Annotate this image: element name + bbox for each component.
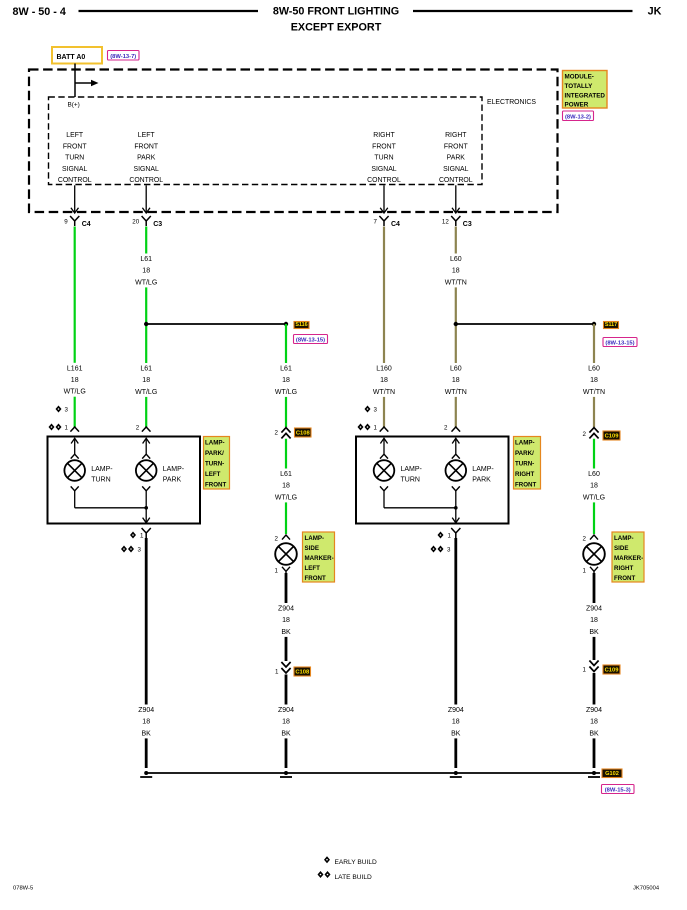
svg-text:RIGHT: RIGHT: [515, 471, 534, 478]
svg-text:18: 18: [452, 719, 460, 726]
svg-text:CONTROL: CONTROL: [367, 177, 401, 184]
label LAMP-PARK/TURN-LEFT FRONT: [204, 437, 230, 490]
svg-text:C108: C108: [296, 430, 311, 436]
svg-text:L60: L60: [450, 366, 462, 373]
svg-text:C109: C109: [605, 433, 620, 439]
ground wire Z904 left lamp: [145, 538, 148, 768]
svg-text:CONTROL: CONTROL: [439, 177, 473, 184]
lamp side marker left front pin 1: [282, 567, 290, 574]
wire L61 18 WT/LG to left side marker: [285, 439, 287, 534]
svg-text:2: 2: [444, 425, 448, 432]
svg-text:18: 18: [282, 483, 290, 490]
svg-text:INTEGRATED: INTEGRATED: [565, 93, 606, 100]
svg-text:PARK: PARK: [163, 477, 182, 484]
wire label Z904 18 BK: [441, 705, 471, 739]
svg-text:LEFT: LEFT: [66, 132, 84, 139]
ground exit arrow left: [143, 518, 150, 523]
arrow from TURN control to connector: [74, 185, 76, 213]
svg-text:L160: L160: [376, 366, 392, 373]
wire label Z904 18 BK left side marker: [271, 603, 301, 637]
wire label L161 18 WT/LG: [60, 363, 90, 397]
lamp box entry connector: [380, 427, 389, 432]
wire L60 18 WT/TN (right front park): [455, 227, 457, 428]
svg-text:TOTALLY: TOTALLY: [565, 83, 594, 90]
wire label L61 18 WT/LG upper: [131, 254, 161, 288]
lamp box entry connector: [70, 427, 79, 432]
ground label G102: [602, 769, 622, 778]
svg-text:CONTROL: CONTROL: [129, 177, 163, 184]
splice S117 junction at L60: [454, 322, 458, 326]
wire label L160 18 WT/TN: [369, 363, 399, 397]
svg-text:078W-5: 078W-5: [13, 886, 33, 892]
svg-text:TURN-: TURN-: [205, 461, 224, 468]
svg-text:18: 18: [452, 268, 460, 275]
svg-text:EARLY BUILD: EARLY BUILD: [335, 859, 378, 866]
svg-text:1: 1: [275, 568, 279, 575]
svg-text:18: 18: [282, 617, 290, 624]
ground junction: [454, 771, 458, 775]
svg-text:FRONT: FRONT: [205, 482, 227, 489]
lamp-park right: [455, 438, 457, 455]
svg-text:9: 9: [64, 219, 68, 226]
svg-text:RIGHT: RIGHT: [373, 132, 395, 139]
svg-text:MARKER-: MARKER-: [305, 555, 334, 562]
reference label 8W-13-2: [563, 111, 594, 121]
svg-text:FRONT: FRONT: [444, 143, 469, 150]
ground wire Z904 from right side marker: [593, 573, 596, 660]
svg-text:2: 2: [136, 425, 140, 432]
wire label L61 18 WT/LG lower: [271, 469, 301, 503]
svg-text:C3: C3: [463, 221, 472, 228]
svg-text:WT/TN: WT/TN: [445, 279, 467, 286]
svg-text:18: 18: [590, 483, 598, 490]
svg-text:JK: JK: [648, 6, 662, 18]
svg-text:(8W-13-15): (8W-13-15): [296, 337, 325, 343]
svg-text:CONTROL: CONTROL: [58, 177, 92, 184]
svg-text:S116: S116: [295, 322, 307, 328]
lamp-turn right: [383, 438, 385, 455]
lamp park/turn right front box: [356, 437, 509, 524]
svg-text:LAMP-: LAMP-: [401, 466, 423, 473]
svg-text:FRONT: FRONT: [515, 482, 537, 489]
svg-text:18: 18: [590, 617, 598, 624]
wire label Z904 18 BK: [271, 705, 301, 739]
lamp side marker right front pin 2: [590, 535, 598, 540]
lamp park/turn left front box: [48, 437, 201, 524]
wire L160 18 WT/TN (right front turn): [383, 227, 385, 428]
ground wire Z904 left branch lower: [285, 675, 288, 769]
arrow from PARK control to connector: [145, 185, 147, 213]
svg-text:1: 1: [275, 669, 279, 676]
svg-text:PARK: PARK: [447, 155, 466, 162]
svg-text:8W - 50 - 4: 8W - 50 - 4: [13, 6, 66, 18]
lamp side marker right front pin 1: [590, 567, 598, 574]
splice label S117: [604, 322, 619, 329]
ground wire Z904 right lamp: [454, 538, 457, 768]
late build marker pin 1 left: [49, 424, 55, 431]
svg-text:LAMP-: LAMP-: [614, 535, 634, 542]
svg-text:Z904: Z904: [448, 707, 464, 714]
lamp-park left: [145, 438, 147, 455]
lamp wiring junction left: [74, 491, 76, 508]
svg-text:18: 18: [71, 377, 79, 384]
connector C3 pin 20: [142, 216, 151, 226]
svg-text:FRONT: FRONT: [305, 575, 327, 582]
svg-text:WT/TN: WT/TN: [445, 389, 467, 396]
early build marker pin 3 right: [365, 406, 371, 413]
reference label 8W-13-15 left: [294, 335, 328, 344]
svg-text:Z904: Z904: [278, 707, 294, 714]
svg-text:LEFT: LEFT: [305, 565, 321, 572]
svg-text:MARKER-: MARKER-: [614, 555, 643, 562]
svg-text:BK: BK: [589, 629, 599, 636]
early build pin 1 marker right exit: [438, 532, 444, 539]
splice S116 junction right: [284, 322, 288, 326]
svg-text:PARK: PARK: [472, 477, 491, 484]
legend late build: [318, 871, 324, 878]
svg-text:WT/TN: WT/TN: [583, 389, 605, 396]
svg-text:7: 7: [374, 219, 378, 226]
svg-text:18: 18: [590, 377, 598, 384]
svg-text:MODULE-: MODULE-: [565, 74, 594, 81]
ground junction: [144, 771, 148, 775]
svg-text:2: 2: [583, 536, 587, 543]
svg-text:BK: BK: [281, 629, 291, 636]
wire label L61 18 WT/LG mid: [131, 363, 161, 397]
splice S116 bus wire: [146, 323, 286, 325]
label LAMP-SIDE MARKER-RIGHT FRONT: [612, 532, 644, 582]
wire label L61 18 WT/LG branch: [271, 363, 301, 397]
wire L61 18 WT/LG (left front park): [145, 227, 147, 428]
svg-text:EXCEPT EXPORT: EXCEPT EXPORT: [291, 22, 382, 34]
ground junction: [592, 771, 596, 775]
svg-text:LATE BUILD: LATE BUILD: [335, 874, 372, 881]
svg-text:1: 1: [374, 425, 378, 432]
early build marker pin 3 left: [56, 406, 62, 413]
lamp wiring junction right: [383, 491, 385, 508]
svg-text:BATT A0: BATT A0: [57, 54, 86, 61]
svg-text:SIGNAL: SIGNAL: [62, 166, 87, 173]
svg-text:B(+): B(+): [68, 102, 80, 109]
lamp side marker right front: [583, 543, 605, 565]
svg-text:SIGNAL: SIGNAL: [371, 166, 396, 173]
svg-text:18: 18: [452, 377, 460, 384]
svg-text:2: 2: [275, 536, 279, 543]
svg-text:1: 1: [65, 425, 69, 432]
lamp box entry connector: [452, 427, 461, 432]
header rule right: [413, 10, 633, 12]
svg-text:BK: BK: [142, 730, 152, 737]
svg-text:SIDE: SIDE: [614, 545, 628, 552]
svg-text:POWER: POWER: [565, 102, 589, 109]
svg-text:L61: L61: [280, 471, 292, 478]
svg-text:1: 1: [448, 533, 452, 540]
connector C4 pin 7: [379, 216, 388, 226]
svg-text:C4: C4: [82, 221, 91, 228]
svg-text:18: 18: [142, 268, 150, 275]
svg-text:C4: C4: [391, 221, 400, 228]
battery feed box BATT A0: [52, 47, 102, 64]
svg-text:L161: L161: [67, 365, 83, 372]
splice S116 junction at L61: [144, 322, 148, 326]
svg-text:FRONT: FRONT: [63, 143, 88, 150]
legend early build: [324, 856, 330, 863]
svg-text:SIGNAL: SIGNAL: [443, 166, 468, 173]
svg-text:TURN: TURN: [65, 155, 84, 162]
lamp box right ground pin connector: [451, 528, 460, 538]
svg-text:LAMP-: LAMP-: [472, 466, 494, 473]
header rule left: [79, 10, 259, 12]
label LAMP-PARK/TURN-RIGHT FRONT: [514, 437, 541, 490]
svg-text:BK: BK: [281, 730, 291, 737]
svg-text:LEFT: LEFT: [138, 132, 156, 139]
in-line connector C108 pin 2: [281, 428, 290, 433]
in-line connector C109 pin 2: [589, 428, 598, 433]
wire label Z904 18 BK: [131, 705, 161, 739]
lamp box left ground pin connector: [142, 528, 151, 538]
svg-text:TURN: TURN: [374, 155, 393, 162]
svg-text:18: 18: [380, 377, 388, 384]
ground exit arrow right: [452, 518, 459, 523]
svg-text:18: 18: [282, 719, 290, 726]
svg-text:PARK/: PARK/: [515, 450, 534, 457]
svg-text:PARK: PARK: [137, 155, 156, 162]
svg-text:S117: S117: [605, 322, 617, 328]
svg-text:20: 20: [132, 219, 139, 226]
svg-text:L60: L60: [450, 256, 462, 263]
svg-text:18: 18: [282, 377, 290, 384]
svg-text:L60: L60: [588, 471, 600, 478]
svg-text:3: 3: [374, 407, 378, 414]
wire label L60 18 WT/LG lower: [579, 469, 609, 503]
svg-text:L61: L61: [140, 256, 152, 263]
svg-text:1: 1: [583, 568, 587, 575]
connector C3 pin 12: [451, 216, 460, 226]
module-totally integrated power outer dashed box: [29, 70, 558, 213]
ground wire Z904 from left side marker: [285, 573, 288, 661]
svg-text:(8W-13-15): (8W-13-15): [605, 340, 634, 346]
arrow from PARK control to connector: [455, 185, 457, 213]
svg-text:SIDE: SIDE: [305, 545, 319, 552]
label LAMP-SIDE MARKER-LEFT FRONT: [303, 532, 335, 582]
svg-text:8W-50 FRONT LIGHTING: 8W-50 FRONT LIGHTING: [273, 6, 399, 18]
late build marker pin 1 right: [358, 424, 364, 431]
wire from BATT A0 to B(+): [74, 64, 76, 98]
svg-text:WT/LG: WT/LG: [275, 494, 297, 501]
svg-text:LAMP-: LAMP-: [205, 440, 225, 447]
svg-text:TURN: TURN: [91, 477, 110, 484]
svg-text:PARK/: PARK/: [205, 450, 224, 457]
svg-text:L60: L60: [588, 366, 600, 373]
reference label 8W-13-15 right: [603, 338, 637, 347]
branch arrow to other circuits: [75, 82, 92, 84]
connector C4 pin 9: [70, 216, 79, 226]
svg-text:Z904: Z904: [586, 606, 602, 613]
lamp box entry connector: [142, 427, 151, 432]
svg-text:Z904: Z904: [586, 707, 602, 714]
wire label L60 18 WT/TN upper: [441, 254, 471, 288]
svg-text:RIGHT: RIGHT: [445, 132, 467, 139]
svg-text:Z904: Z904: [278, 606, 294, 613]
svg-text:C108: C108: [295, 669, 310, 675]
svg-text:FRONT: FRONT: [614, 575, 636, 582]
svg-text:C3: C3: [153, 221, 162, 228]
svg-text:LAMP-: LAMP-: [163, 466, 185, 473]
svg-text:LAMP-: LAMP-: [305, 535, 325, 542]
svg-text:18: 18: [142, 719, 150, 726]
svg-text:ELECTRONICS: ELECTRONICS: [487, 99, 536, 106]
svg-text:FRONT: FRONT: [372, 143, 397, 150]
svg-text:WT/LG: WT/LG: [135, 279, 157, 286]
svg-text:3: 3: [65, 407, 69, 414]
svg-text:(8W-13-7): (8W-13-7): [110, 54, 136, 60]
ground bus wire to G102: [146, 772, 600, 774]
module label MODULE-TOTALLY INTEGRATED POWER: [563, 71, 608, 109]
svg-text:1: 1: [140, 533, 144, 540]
ground wire Z904 right branch lower: [593, 673, 596, 768]
svg-text:WT/LG: WT/LG: [135, 389, 157, 396]
svg-text:WT/LG: WT/LG: [583, 494, 605, 501]
svg-text:3: 3: [138, 547, 142, 554]
early build pin 1 marker left exit: [130, 532, 136, 539]
svg-text:TURN-: TURN-: [515, 461, 534, 468]
wire L60 18 WT/TN branch from S117 to C109: [593, 324, 595, 427]
reference label 8W-15-3: [602, 785, 635, 794]
svg-text:RIGHT: RIGHT: [614, 565, 633, 572]
svg-text:(8W-13-2): (8W-13-2): [565, 114, 591, 120]
wire label Z904 18 BK right side marker: [579, 603, 609, 637]
late build pin 3 marker left exit: [121, 546, 127, 553]
svg-text:L61: L61: [140, 366, 152, 373]
svg-text:WT/LG: WT/LG: [64, 389, 86, 396]
arrow from TURN control to connector: [383, 185, 385, 213]
lamp-turn left: [74, 438, 76, 455]
svg-text:LAMP-: LAMP-: [515, 440, 535, 447]
svg-text:18: 18: [142, 377, 150, 384]
reference label 8W-13-7: [108, 51, 140, 61]
svg-text:(8W-15-3): (8W-15-3): [605, 787, 631, 793]
svg-text:G102: G102: [605, 771, 619, 777]
svg-text:SIGNAL: SIGNAL: [134, 166, 159, 173]
svg-text:L61: L61: [280, 366, 292, 373]
wire L60 18 WT/LG to right side marker: [593, 439, 595, 534]
svg-text:Z904: Z904: [138, 707, 154, 714]
svg-text:FRONT: FRONT: [134, 143, 159, 150]
svg-text:WT/TN: WT/TN: [373, 389, 395, 396]
in-line connector C109 pin 1: [589, 661, 598, 666]
svg-text:LAMP-: LAMP-: [91, 466, 113, 473]
lamp side marker left front pin 2: [282, 535, 290, 540]
lamp side marker left front: [275, 543, 297, 565]
wire label L60 18 WT/TN mid: [441, 363, 471, 397]
svg-text:C109: C109: [605, 667, 620, 673]
late build pin 3 marker right exit: [431, 546, 437, 553]
svg-text:1: 1: [583, 667, 587, 674]
splice label S116: [294, 322, 309, 329]
in-line connector C108 pin 1: [281, 662, 290, 667]
svg-text:2: 2: [583, 431, 587, 438]
wire L61 18 WT/LG branch from S116 to C108: [285, 324, 287, 427]
splice S117 junction right: [592, 322, 596, 326]
electronics inner dashed box: [49, 97, 483, 185]
wire label Z904 18 BK: [579, 705, 609, 739]
svg-text:12: 12: [442, 219, 449, 226]
splice S117 bus wire: [456, 323, 594, 325]
svg-text:2: 2: [275, 430, 279, 437]
svg-text:TURN: TURN: [401, 477, 420, 484]
ground junction: [284, 771, 288, 775]
svg-text:WT/LG: WT/LG: [275, 389, 297, 396]
svg-text:BK: BK: [589, 730, 599, 737]
wire label L60 18 WT/TN branch: [579, 363, 609, 397]
svg-text:3: 3: [447, 547, 451, 554]
svg-text:BK: BK: [451, 730, 461, 737]
wire L161 18 WT/LG (left front turn): [74, 227, 76, 428]
svg-text:LEFT: LEFT: [205, 471, 221, 478]
svg-text:18: 18: [590, 719, 598, 726]
svg-text:JK705004: JK705004: [633, 886, 660, 892]
